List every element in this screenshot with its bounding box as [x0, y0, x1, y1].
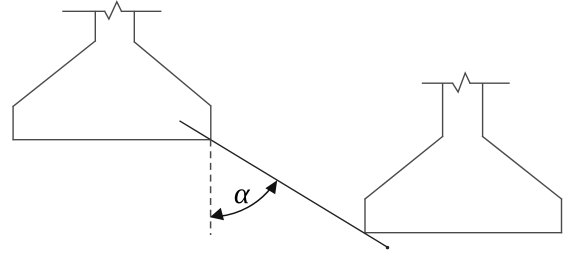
left footing: wall top line with break symbol	[13, 2, 211, 140]
inclined slope line between footings	[180, 121, 389, 248]
wire: right footing top ground line (left segment)	[423, 82, 453, 84]
wire: right footing left haunch slope	[365, 137, 443, 200]
arrowhead at inclined line (upper right)	[265, 180, 277, 194]
dashed vertical reference line	[210, 140, 212, 236]
wire: right footing right wall side	[482, 83, 484, 136]
dot at end of inclined line	[386, 246, 389, 249]
wire: left footing right haunch slope	[134, 42, 211, 106]
wire: left footing left haunch slope	[13, 41, 95, 106]
wire: right footing right vertical edge	[561, 199, 563, 233]
wire: right footing break zigzag	[453, 73, 470, 92]
right footing	[365, 73, 562, 233]
wire: right footing left wall side	[442, 83, 444, 136]
wire: left footing top ground line (right segment)	[122, 10, 161, 12]
arrowhead at dashed line (lower left)	[210, 208, 224, 221]
svg-text:α: α	[234, 177, 251, 210]
wire: right footing right haunch slope	[483, 137, 562, 200]
wire: left footing top ground line (left segment)	[63, 10, 105, 12]
wire: left footing bottom edge	[13, 139, 211, 141]
wire: right footing bottom edge	[365, 232, 562, 234]
wire: right footing left vertical edge	[364, 199, 366, 233]
wire: right footing top ground line (right segment)	[470, 82, 509, 84]
wire: left footing right wall side	[133, 11, 135, 42]
angle arc with double arrowheads	[219, 188, 271, 217]
wire: left footing right vertical edge	[210, 106, 212, 140]
wire: left footing break zigzag	[105, 2, 122, 19]
wire: left footing left vertical edge	[12, 106, 14, 139]
wire: left footing left wall side	[94, 11, 96, 41]
